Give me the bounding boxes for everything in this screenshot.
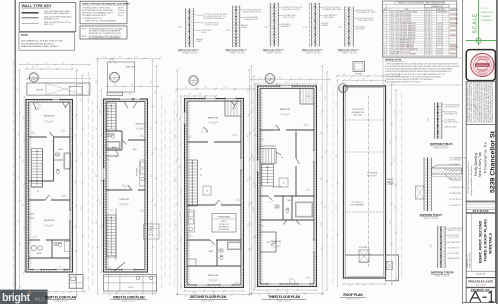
svg-text:New 4-Story Two: New 4-Story Two — [478, 152, 482, 177]
svg-text:48: 48 — [429, 35, 431, 37]
svg-text:REGISTERED: REGISTERED — [476, 65, 489, 67]
svg-text:PROGRESS DATE: PROGRESS DATE — [468, 281, 493, 284]
svg-text:2x4 WD STUDS @16" OC: 2x4 WD STUDS @16" OC — [243, 12, 263, 14]
svg-text:9'-6": 9'-6" — [179, 116, 181, 120]
svg-text:7'-2": 7'-2" — [27, 63, 31, 65]
svg-text:2,506 SF: 2,506 SF — [118, 10, 124, 12]
svg-text:5/8" GYP BD: 5/8" GYP BD — [356, 26, 366, 28]
svg-text:BEDROOM: BEDROOM — [280, 109, 290, 111]
svg-text:7'-2": 7'-2" — [349, 285, 353, 287]
svg-text:13: 13 — [383, 54, 385, 56]
svg-text:03-26-19: 03-26-19 — [476, 274, 486, 276]
svg-text:9'-6": 9'-6" — [254, 208, 256, 212]
svg-text:60: 60 — [425, 23, 427, 25]
svg-text:60: 60 — [429, 26, 431, 28]
svg-text:FULL HEIGHT TYP: FULL HEIGHT TYP — [445, 114, 458, 116]
svg-text:54: 54 — [429, 30, 431, 32]
svg-text:WALL TYPE KEY: WALL TYPE KEY — [22, 3, 52, 8]
svg-text:ASSEMBLY (TYP): ASSEMBLY (TYP) — [44, 17, 59, 20]
svg-text:9'-6": 9'-6" — [151, 127, 153, 131]
svg-text:7'-2": 7'-2" — [265, 82, 269, 84]
svg-text:SCALE: 1/4"=1'-0": SCALE: 1/4"=1'-0" — [54, 300, 68, 303]
svg-text:UNIT #2: UNIT #2 — [221, 221, 227, 223]
svg-text:U=0.32: U=0.32 — [437, 28, 442, 30]
svg-text:7'-2": 7'-2" — [259, 78, 263, 80]
svg-text:845 SF: 845 SF — [118, 7, 123, 9]
svg-text:9'-6": 9'-6" — [176, 223, 178, 227]
svg-text:FIRST FLOOR PLAN: FIRST FLOOR PLAN — [113, 296, 145, 300]
svg-text:9'-6": 9'-6" — [96, 220, 98, 224]
svg-text:ROOF AREA: ROOF AREA — [367, 172, 378, 175]
svg-text:TEMPERED: TEMPERED — [450, 47, 459, 49]
svg-text:7'-2": 7'-2" — [374, 74, 378, 76]
svg-text:9'-6": 9'-6" — [390, 220, 392, 224]
svg-text:LIN: LIN — [206, 191, 208, 193]
svg-text:W/DETAILS: W/DETAILS — [488, 232, 493, 254]
svg-text:9'-6": 9'-6" — [254, 106, 256, 110]
svg-text:OPENING SIZE: OPENING SIZE — [431, 6, 444, 8]
svg-text:7'-2": 7'-2" — [223, 87, 227, 89]
svg-text:9'-6": 9'-6" — [390, 140, 392, 144]
svg-text:48: 48 — [429, 33, 431, 35]
svg-text:PARTITION TYPE-P7: PARTITION TYPE-P7 — [420, 214, 443, 217]
svg-text:TEMPERED: TEMPERED — [450, 18, 459, 20]
svg-text:EGRESS: EGRESS — [450, 30, 456, 32]
svg-text:9'-6": 9'-6" — [18, 88, 20, 92]
svg-text:MLS: MLS — [35, 296, 45, 301]
svg-text:7'-2": 7'-2" — [114, 85, 118, 87]
svg-text:EXT SIDING ON BLDG: EXT SIDING ON BLDG — [448, 228, 464, 230]
svg-text:1/2" COVER BD: 1/2" COVER BD — [449, 160, 461, 162]
svg-text:7'-2": 7'-2" — [192, 292, 196, 294]
svg-text:DN: DN — [281, 157, 283, 159]
svg-text:9'-6": 9'-6" — [151, 173, 153, 177]
svg-text:26: 26 — [425, 16, 427, 18]
svg-text:W.I.C.: W.I.C. — [307, 96, 312, 98]
svg-text:9'-6": 9'-6" — [321, 222, 323, 226]
svg-text:7'-2": 7'-2" — [119, 57, 123, 59]
svg-text:U=0.32: U=0.32 — [437, 30, 442, 32]
svg-text:DRAWN BY: H.D.: DRAWN BY: H.D. — [466, 253, 469, 268]
svg-text:1/4" = 1'-0": 1/4" = 1'-0" — [481, 8, 489, 10]
svg-text:80: 80 — [429, 18, 431, 20]
svg-text:7 1/4": 7 1/4" — [338, 27, 343, 29]
svg-text:LIN: LIN — [282, 183, 284, 185]
svg-text:4 3/4": 4 3/4" — [428, 117, 430, 122]
svg-text:30: 30 — [425, 11, 427, 13]
svg-text:9'-6": 9'-6" — [151, 80, 153, 84]
svg-text:7'-2": 7'-2" — [258, 295, 262, 297]
svg-text:9'-6": 9'-6" — [155, 203, 157, 207]
svg-text:U=0.32: U=0.32 — [437, 35, 442, 37]
svg-text:7'-2": 7'-2" — [279, 78, 283, 80]
svg-text:7'-2": 7'-2" — [134, 57, 138, 59]
svg-text:9'-6": 9'-6" — [23, 115, 25, 119]
svg-text:9'-6": 9'-6" — [250, 131, 252, 135]
svg-text:2x4 WOOD STUDS: 2x4 WOOD STUDS — [205, 22, 219, 24]
svg-text:7'-2": 7'-2" — [358, 74, 362, 76]
svg-text:BEDROOM: BEDROOM — [272, 187, 282, 189]
svg-text:9'-6": 9'-6" — [96, 80, 98, 84]
svg-text:9'-6": 9'-6" — [100, 200, 102, 204]
svg-text:UNIT 1: UNIT 1 — [149, 229, 154, 231]
svg-text:U=0.32: U=0.32 — [437, 26, 442, 28]
svg-text:9'-6": 9'-6" — [321, 131, 323, 135]
svg-text:215-555-0139 phila.design@mai: 215-555-0139 phila.design@mail.com — [468, 162, 470, 194]
svg-text:EGRESS: EGRESS — [450, 26, 456, 28]
svg-text:LIVING/DINING: LIVING/DINING — [218, 217, 231, 219]
svg-text:9'-6": 9'-6" — [248, 89, 250, 93]
svg-text:REVISIONS: REVISIONS — [473, 211, 489, 213]
svg-text:BEDROOM: BEDROOM — [208, 275, 218, 277]
svg-text:WALL (TYP): WALL (TYP) — [44, 23, 54, 26]
svg-text:NOTE:: NOTE: — [82, 36, 87, 38]
svg-text:9'-6": 9'-6" — [18, 132, 20, 136]
svg-text:1: 1 — [193, 79, 194, 81]
svg-text:2x6 WD STUDS @16": 2x6 WD STUDS @16" — [358, 18, 374, 20]
svg-text:SCALE: 1/4"=1'-0": SCALE: 1/4"=1'-0" — [201, 299, 215, 302]
svg-text:7'-2": 7'-2" — [131, 85, 135, 87]
svg-text:7'-2": 7'-2" — [188, 94, 192, 96]
svg-text:RIGID INSUL: RIGID INSUL — [353, 115, 362, 117]
svg-text:TEMPERED: TEMPERED — [450, 23, 459, 25]
svg-text:N.I.C.: N.I.C. — [149, 232, 153, 234]
svg-text:36: 36 — [429, 51, 431, 53]
svg-text:FULL HT (TYP): FULL HT (TYP) — [283, 17, 294, 19]
svg-text:PARTITION TYPE-P6: PARTITION TYPE-P6 — [430, 143, 453, 146]
svg-text:24: 24 — [425, 40, 427, 42]
svg-text:80: 80 — [429, 23, 431, 25]
svg-text:9'-6": 9'-6" — [179, 164, 181, 168]
svg-text:9'-6": 9'-6" — [248, 223, 250, 227]
svg-text:LOWER ROOF: LOWER ROOF — [359, 262, 369, 264]
svg-text:INT FINISH: INT FINISH — [356, 28, 365, 30]
svg-text:9'-6": 9'-6" — [81, 98, 83, 102]
svg-text:9'-6": 9'-6" — [252, 99, 254, 103]
svg-text:SCALE: SCALE — [472, 13, 478, 34]
svg-text:NOTE:: NOTE: — [82, 28, 87, 30]
svg-text:@ 16" OC (TYP): @ 16" OC (TYP) — [448, 237, 460, 239]
svg-text:BEDROOM: BEDROOM — [208, 118, 218, 120]
svg-text:Philadelphia, Pa: Philadelphia, Pa — [483, 142, 487, 173]
svg-text:U=0.32: U=0.32 — [437, 44, 442, 46]
svg-text:7'-2": 7'-2" — [285, 82, 289, 84]
svg-text:U=0.32: U=0.32 — [437, 23, 442, 25]
svg-text:9'-6": 9'-6" — [155, 147, 157, 151]
svg-text:THIRD FLOOR PLAN: THIRD FLOOR PLAN — [268, 295, 301, 299]
svg-text:SCALE: 1 1/2"=1'-0": SCALE: 1 1/2"=1'-0" — [267, 51, 283, 54]
svg-text:LIVING RM: LIVING RM — [119, 199, 129, 201]
svg-text:48: 48 — [429, 54, 431, 56]
svg-text:BEDROOM: BEDROOM — [136, 124, 146, 126]
svg-text:24: 24 — [429, 47, 431, 49]
svg-text:SCHED.: SCHED. — [196, 41, 203, 43]
svg-text:7 1/4": 7 1/4" — [264, 27, 269, 29]
svg-text:FOR FINISHES: FOR FINISHES — [219, 229, 230, 231]
svg-text:80: 80 — [429, 21, 431, 23]
svg-text:48: 48 — [429, 49, 431, 51]
svg-text:7'-2": 7'-2" — [349, 79, 353, 81]
svg-text:60: 60 — [429, 28, 431, 30]
svg-text:Family Dwelling: Family Dwelling — [474, 153, 478, 176]
svg-text:9'-6": 9'-6" — [75, 225, 77, 229]
svg-text:EGRESS: EGRESS — [450, 54, 456, 56]
svg-text:9'-6": 9'-6" — [248, 178, 250, 182]
svg-text:9 1/2": 9 1/2" — [303, 27, 308, 29]
svg-text:bright: bright — [2, 292, 30, 304]
svg-text:9'-6": 9'-6" — [176, 178, 178, 182]
svg-text:SEE DRAWING A-5 FOR ALL STRUCT: SEE DRAWING A-5 FOR ALL STRUCTURAL — [21, 40, 64, 43]
svg-text:80: 80 — [429, 14, 431, 16]
svg-text:EGRESS: EGRESS — [450, 44, 456, 46]
svg-text:PROPOSED NEW 4 STORY STRUCTURE: PROPOSED NEW 4 STORY STRUCTURE — [82, 10, 113, 12]
svg-text:3,102 SF: 3,102 SF — [118, 12, 124, 14]
svg-text:+1'-6": +1'-6" — [128, 94, 132, 96]
svg-text:30: 30 — [429, 40, 431, 42]
svg-text:CL: CL — [51, 141, 53, 143]
svg-text:ROOF PLAN: ROOF PLAN — [343, 293, 363, 297]
svg-text:INSUL.: INSUL. — [202, 32, 208, 34]
svg-text:SKYLIGHT 2'-0" x 4'-0" CURB MT: SKYLIGHT 2'-0" x 4'-0" CURB MT — [391, 54, 416, 56]
svg-text:7'-2": 7'-2" — [47, 67, 51, 69]
svg-text:PARTITION TYPE-P8: PARTITION TYPE-P8 — [431, 272, 454, 275]
svg-text:9'-6": 9'-6" — [151, 220, 153, 224]
svg-text:30: 30 — [429, 42, 431, 44]
svg-text:7'-2": 7'-2" — [363, 285, 367, 287]
svg-text:1: 1 — [270, 77, 271, 79]
svg-text:42: 42 — [429, 37, 431, 39]
svg-text:7'-2": 7'-2" — [198, 94, 202, 96]
svg-text:DN: DN — [200, 169, 202, 171]
svg-text:7'-2": 7'-2" — [204, 87, 208, 89]
svg-text:9'-6": 9'-6" — [250, 85, 252, 89]
svg-text:9'-6": 9'-6" — [81, 206, 83, 210]
svg-text:9'-6": 9'-6" — [18, 219, 20, 223]
svg-text:PORCH: PORCH — [128, 287, 133, 289]
svg-text:5 1/2": 5 1/2" — [178, 27, 183, 29]
svg-text:20: 20 — [425, 21, 427, 23]
svg-text:36: 36 — [425, 44, 427, 46]
svg-text:30: 30 — [425, 33, 427, 35]
svg-text:9'-6": 9'-6" — [18, 175, 20, 179]
svg-text:DN: DN — [111, 210, 113, 212]
svg-text:9'-6": 9'-6" — [252, 153, 254, 157]
svg-text:28: 28 — [425, 14, 427, 16]
svg-text:7'-2": 7'-2" — [265, 291, 269, 293]
svg-text:9'-6": 9'-6" — [75, 89, 77, 93]
svg-text:9'-6": 9'-6" — [22, 159, 24, 163]
svg-text:20: 20 — [425, 42, 427, 44]
svg-text:BEDROOM: BEDROOM — [44, 220, 54, 222]
svg-text:7'-2": 7'-2" — [103, 57, 107, 59]
svg-text:7'-2": 7'-2" — [44, 63, 48, 65]
svg-text:2x BLOCKING: 2x BLOCKING — [449, 164, 460, 166]
svg-text:9'-6": 9'-6" — [248, 134, 250, 138]
svg-text:9'-6": 9'-6" — [81, 152, 83, 156]
svg-text:JUL 3, 2019: JUL 3, 2019 — [476, 285, 486, 287]
svg-text:5/8" GYP BD INT: 5/8" GYP BD INT — [448, 248, 460, 250]
svg-text:OF 2x4 WD STUDS @ 16" O.C.: OF 2x4 WD STUDS @ 16" O.C. — [204, 16, 227, 18]
svg-text:NO. = 2: NO. = 2 — [118, 15, 124, 17]
svg-text:9'-6": 9'-6" — [321, 85, 323, 89]
svg-text:80: 80 — [429, 16, 431, 18]
svg-text:24: 24 — [425, 37, 427, 39]
svg-text:BSMT FLOOR PLAN: BSMT FLOOR PLAN — [45, 295, 77, 299]
svg-text:2 STORY UNIT: 2 STORY UNIT — [219, 224, 229, 226]
svg-text:4 3/4": 4 3/4" — [226, 30, 231, 32]
svg-text:7'-2": 7'-2" — [32, 67, 36, 69]
svg-text:TEMPERED: TEMPERED — [450, 14, 459, 16]
svg-text:WINDOW & DOOR SCHEDULE - NEW C: WINDOW & DOOR SCHEDULE - NEW CONSTRUCTIO… — [398, 3, 445, 5]
svg-text:2x10 CEILING JOISTS: 2x10 CEILING JOISTS — [449, 187, 464, 189]
svg-text:9'-6": 9'-6" — [390, 180, 392, 184]
svg-text:28: 28 — [425, 35, 427, 37]
svg-text:SCALE: 1 1/2"=1'-0": SCALE: 1 1/2"=1'-0" — [306, 51, 322, 54]
svg-text:9'-6": 9'-6" — [100, 155, 102, 159]
svg-text:9'-6": 9'-6" — [394, 205, 396, 209]
svg-text:DEMISING PARTY ASSEMBLY: DEMISING PARTY ASSEMBLY — [44, 12, 70, 15]
svg-text:7'-2": 7'-2" — [285, 291, 289, 293]
svg-text:9'-6": 9'-6" — [336, 102, 338, 106]
svg-text:PROPOSED 38'-2" TO MIDPOINT OF: PROPOSED 38'-2" TO MIDPOINT OF ROOF — [89, 33, 121, 35]
svg-text:REAR YARD: REAR YARD — [126, 66, 136, 69]
svg-text:9'-6": 9'-6" — [75, 179, 77, 183]
svg-text:7'-2": 7'-2" — [184, 296, 188, 298]
svg-text:UNLESS NOTED: UNLESS NOTED — [481, 12, 494, 14]
svg-text:U=0.32: U=0.32 — [437, 40, 442, 42]
svg-text:9'-6": 9'-6" — [325, 96, 327, 100]
svg-text:2x6 WD STUDS: 2x6 WD STUDS — [448, 235, 459, 237]
svg-text:9'-6": 9'-6" — [250, 222, 252, 226]
svg-text:FURRING: FURRING — [321, 23, 329, 25]
svg-text:9'-6": 9'-6" — [254, 157, 256, 161]
svg-text:W.I.C.: W.I.C. — [232, 108, 237, 110]
svg-text:80: 80 — [429, 11, 431, 13]
svg-text:9'-6": 9'-6" — [75, 134, 77, 138]
svg-text:7'-2": 7'-2" — [62, 63, 66, 65]
svg-text:EGRESS: EGRESS — [450, 49, 456, 51]
svg-text:NOTES/DEMO/INSTALLATION OF: NOTES/DEMO/INSTALLATION OF — [21, 42, 54, 45]
svg-text:9'-6": 9'-6" — [23, 203, 25, 207]
svg-text:7 1/4": 7 1/4" — [431, 243, 433, 248]
svg-text:@ 16" O.C. (TYP): @ 16" O.C. (TYP) — [205, 24, 218, 26]
svg-text:ZONING / PROPOSED USE NARRATIV: ZONING / PROPOSED USE NARRATIVE - BLDG P… — [82, 2, 131, 5]
svg-text:SCALE: 1 1/2"=1'-0": SCALE: 1 1/2"=1'-0" — [342, 51, 358, 54]
svg-text:9'-6": 9'-6" — [336, 154, 338, 158]
svg-text:SCALE: 1/4"=1'-0": SCALE: 1/4"=1'-0" — [122, 300, 136, 303]
svg-text:7'-2": 7'-2" — [185, 87, 189, 89]
svg-text:7'-2": 7'-2" — [298, 78, 302, 80]
svg-text:1: 1 — [114, 75, 115, 77]
svg-text:EXTERIOR SIDING ON: EXTERIOR SIDING ON — [356, 10, 374, 12]
svg-text:9'-6": 9'-6" — [325, 150, 327, 154]
svg-text:32: 32 — [425, 30, 427, 32]
svg-text:U=0.32: U=0.32 — [437, 42, 442, 44]
svg-text:9'-6": 9'-6" — [96, 127, 98, 131]
svg-text:5/8" TYPE X GYP BD ON: 5/8" TYPE X GYP BD ON — [322, 7, 341, 9]
svg-text:EGRESS: EGRESS — [450, 35, 456, 37]
svg-text:9'-6": 9'-6" — [100, 109, 102, 113]
svg-text:UP: UP — [200, 175, 202, 177]
svg-text:9'-6": 9'-6" — [250, 176, 252, 180]
svg-text:7'-2": 7'-2" — [363, 79, 367, 81]
svg-text:9'-6": 9'-6" — [394, 110, 396, 114]
svg-text:24: 24 — [425, 54, 427, 56]
svg-text:9'-6": 9'-6" — [155, 91, 157, 95]
svg-text:SCALE: 1/4"=1'-0": SCALE: 1/4"=1'-0" — [277, 299, 291, 302]
svg-text:Design Consultants • Architect: Design Consultants • Architects — [470, 165, 473, 196]
svg-text:SCHED: SCHED — [241, 27, 247, 29]
svg-text:EXT SIDING TYP: EXT SIDING TYP — [449, 205, 461, 207]
svg-text:CONST. TYPE 5B - FULLY SPRINKL: CONST. TYPE 5B - FULLY SPRINKLERED — [85, 20, 117, 22]
svg-text:5/8" GYP BD CLG: 5/8" GYP BD CLG — [449, 199, 462, 201]
svg-text:U=0.32: U=0.32 — [437, 37, 442, 39]
svg-text:32: 32 — [425, 47, 427, 49]
svg-text:HEADERS/FRAMING & WALL DETAILS: HEADERS/FRAMING & WALL DETAILS — [21, 45, 59, 48]
svg-text:24: 24 — [429, 44, 431, 46]
svg-text:7'-2": 7'-2" — [32, 293, 36, 295]
svg-text:72: 72 — [425, 49, 427, 51]
svg-text:36: 36 — [425, 26, 427, 28]
svg-text:U=0.30: U=0.30 — [437, 49, 442, 51]
svg-text:SCALE: 1/4"=1'-0": SCALE: 1/4"=1'-0" — [346, 297, 360, 300]
svg-text:7'-2": 7'-2" — [108, 294, 112, 296]
svg-text:SCALE: 1 1/2"=1'-0": SCALE: 1 1/2"=1'-0" — [183, 51, 199, 54]
svg-text:9'-6": 9'-6" — [336, 205, 338, 209]
svg-text:1: 1 — [33, 75, 34, 77]
svg-text:SECOND FLOOR PLAN: SECOND FLOOR PLAN — [190, 295, 227, 299]
svg-text:INSUL: INSUL — [437, 51, 442, 53]
svg-text:5239 Chancellor St: 5239 Chancellor St — [489, 130, 496, 193]
svg-text:9'-6": 9'-6" — [394, 158, 396, 162]
svg-text:OTHERWISE: OTHERWISE — [481, 16, 491, 18]
svg-text:U=0.45: U=0.45 — [437, 54, 442, 56]
svg-text:SCALE: AS NOTED: SCALE: AS NOTED — [468, 251, 471, 268]
svg-text:9'-6": 9'-6" — [321, 176, 323, 180]
svg-text:24: 24 — [425, 18, 427, 20]
svg-text:2x4 STUDS @ 16" OC: 2x4 STUDS @ 16" OC — [445, 107, 461, 109]
svg-text:BEDROOM: BEDROOM — [44, 116, 54, 118]
svg-text:KITCHEN: KITCHEN — [137, 167, 139, 176]
svg-text:SCALE: 1 1/2"=1'-0": SCALE: 1 1/2"=1'-0" — [230, 51, 246, 54]
svg-text:9'-6": 9'-6" — [325, 205, 327, 209]
svg-text:LIVING: LIVING — [148, 227, 154, 229]
svg-text:UP: UP — [37, 191, 39, 193]
svg-text:9'-6": 9'-6" — [179, 212, 181, 216]
svg-text:NEW TPO ROOF: NEW TPO ROOF — [352, 109, 364, 111]
svg-text:NOTE:: NOTE: — [21, 34, 29, 37]
svg-text:32: 32 — [425, 28, 427, 30]
svg-text:SLOPE 1/4"/FT: SLOPE 1/4"/FT — [367, 176, 377, 178]
svg-text:9'-6": 9'-6" — [96, 173, 98, 177]
svg-text:7'-2": 7'-2" — [343, 74, 347, 76]
svg-text:9'-6": 9'-6" — [176, 134, 178, 138]
svg-text:30: 30 — [425, 51, 427, 53]
svg-text:U=0.32: U=0.32 — [437, 33, 442, 35]
svg-text:5-PLY BUILT-UP: 5-PLY BUILT-UP — [351, 202, 362, 204]
svg-text:9'-6": 9'-6" — [390, 100, 392, 104]
svg-text:W.I.C.: W.I.C. — [267, 242, 272, 244]
